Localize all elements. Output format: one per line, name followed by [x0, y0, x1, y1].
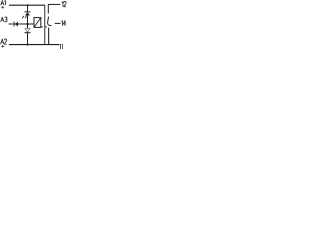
diode D1 cathode bar: [13, 22, 15, 27]
diode D2 cathode bar: [25, 32, 31, 34]
mechanical link dash 2: [45, 26, 47, 28]
wire long vertical from A1 corner down: [44, 5, 46, 45]
diode D2 triangle pointing down: [25, 29, 30, 33]
plus polarity mark at A1: [1, 6, 4, 9]
relay coil K1 box: [34, 18, 41, 28]
diode D1 triangle pointing left: [15, 22, 18, 27]
wire NC fixed contact vertical: [47, 4, 49, 13]
wire A1 horizontal rail: [9, 4, 45, 6]
wire bottom rail A2 to 11: [9, 44, 59, 46]
mechanical link dash 1: [41, 26, 43, 28]
plus polarity mark at A2: [1, 45, 4, 48]
terminal label A2: [1, 39, 7, 44]
wire LED branch lower: [27, 15, 29, 24]
contact moving arm: [48, 17, 52, 26]
terminal label 12: [62, 1, 66, 6]
wire A3 rail to coil box: [18, 23, 34, 25]
node junction dot on A1 rail: [27, 4, 29, 6]
relay coil K1 diagonal: [34, 18, 41, 28]
wire 14 stub: [55, 22, 61, 24]
wire common contact vertical to 11: [48, 28, 50, 45]
wire A3 stub: [9, 23, 14, 25]
wire diode branch upper: [27, 24, 29, 28]
node junction dot on A3 rail: [26, 23, 28, 25]
wire LED branch upper: [27, 5, 29, 11]
LED cathode bar: [25, 11, 31, 13]
terminal label A1: [1, 0, 6, 5]
node junction dot on bottom rail: [26, 43, 28, 45]
terminal label 11: [61, 44, 63, 49]
wire 12 stub: [48, 3, 60, 5]
LED triangle pointing up: [25, 12, 30, 15]
terminal label 14: [62, 20, 66, 25]
terminal label A3: [1, 17, 7, 22]
LED light arrows: [22, 16, 26, 19]
wire diode branch lower: [27, 33, 29, 45]
